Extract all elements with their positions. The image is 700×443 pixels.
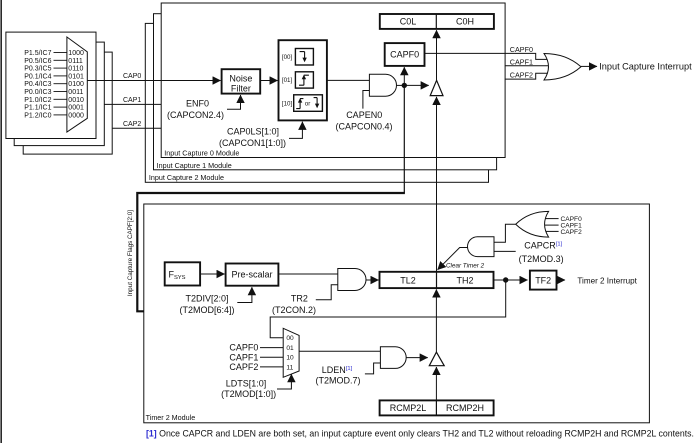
wire CAP1: [104, 103, 161, 105]
wire RCMP2L/RCMP2H up to reload buffer: [435, 367, 437, 400]
input capture module 0 box (front): [161, 3, 505, 158]
wire CAP0 from mux to noise filter: [87, 80, 220, 82]
svg-text:CAPEN0: CAPEN0: [346, 110, 382, 120]
svg-text:P0.4/IC3: P0.4/IC3: [24, 81, 51, 88]
svg-text:CAP0: CAP0: [123, 73, 141, 80]
svg-text:T2DIV[2:0]: T2DIV[2:0]: [185, 294, 228, 304]
edge selector box: [279, 40, 327, 120]
svg-text:P1.2/IC0: P1.2/IC0: [24, 112, 51, 119]
svg-text:P0.3/IC5: P0.3/IC5: [24, 66, 51, 73]
wire CAP0LS select into edge selector: [289, 122, 302, 139]
svg-text:Input Capture 0 Module: Input Capture 0 Module: [164, 148, 239, 157]
OR gate U4 (capture flags, mirrored): [516, 211, 549, 237]
svg-text:Noise: Noise: [229, 74, 252, 84]
pre-scalar box: [226, 264, 279, 286]
C0L / C0H capture register box: [380, 14, 494, 29]
wire CAPF0 to reload mux 01: [260, 347, 283, 349]
wire: AND output down to flags bracket: [403, 85, 405, 193]
svg-text:P0.1/IC4: P0.1/IC4: [24, 73, 51, 80]
svg-text:Timer 2 Interrupt: Timer 2 Interrupt: [577, 276, 637, 285]
svg-text:Filter: Filter: [231, 84, 251, 94]
edge option [01] rising-edge icon: [299, 75, 309, 85]
svg-text:10: 10: [286, 355, 294, 362]
wire CAPEN0 to AND U1: [363, 91, 370, 109]
svg-text:(T2MOD[6:4]): (T2MOD[6:4]): [179, 305, 234, 315]
wire CAPF2 to interrupt OR: [505, 73, 552, 79]
svg-text:(T2MOD.3): (T2MOD.3): [519, 254, 564, 264]
wire timer bus TL2/TH2 up to capture buffer: [436, 97, 438, 272]
wire TR2 to AND U2: [316, 285, 338, 300]
svg-text:[1] Once CAPCR and LDEN are bo: [1] Once CAPCR and LDEN are both set, an…: [146, 428, 694, 438]
wire node A to capture buffer trigger: [404, 84, 428, 86]
wire node B feedback to reload mux 00: [270, 280, 506, 338]
svg-text:Input Capture Interrupt: Input Capture Interrupt: [599, 62, 692, 72]
wire AND U1 output to node A: [397, 84, 405, 86]
svg-text:11: 11: [286, 364, 293, 371]
net labels at reload mux: [229, 343, 258, 372]
wire TF2 to timer 2 interrupt: [557, 279, 566, 281]
svg-text:CAP0LS[1:0]: CAP0LS[1:0]: [227, 127, 279, 137]
wire CAPF0 into OR U4: [543, 218, 559, 220]
TL2 / TH2 register box: [380, 272, 494, 288]
pin dashes: [54, 53, 67, 115]
CAPF0 flag box: [385, 43, 425, 66]
wire LDEN to AND U3: [365, 363, 381, 374]
wire clear timer 2: [438, 248, 468, 270]
edge option [10] rising-or-falling icon: [296, 99, 303, 109]
svg-text:P0.5/IC6: P0.5/IC6: [24, 58, 51, 65]
wire AND U2 to TL2: [366, 279, 379, 281]
svg-text:C0L: C0L: [400, 17, 417, 27]
wire CAPF2 into OR U4: [543, 230, 559, 232]
svg-text:01: 01: [286, 345, 294, 352]
svg-text:or: or: [305, 100, 311, 107]
svg-text:CAPF2: CAPF2: [510, 71, 533, 80]
page left border: [0, 0, 2, 443]
pin labels: port inputs: [24, 50, 51, 119]
svg-text:CAPF0: CAPF0: [229, 343, 258, 353]
node A junction dot: [402, 83, 407, 88]
AND gate U2 (timer run): [338, 269, 366, 291]
FSYS box: [165, 262, 200, 285]
svg-text:Pre-scalar: Pre-scalar: [231, 269, 272, 279]
svg-text:TF2: TF2: [535, 276, 551, 286]
OR gate: input capture interrupt: [544, 54, 581, 81]
wire TH2 to TF2: [494, 279, 528, 281]
mux: input port selector: [67, 37, 87, 132]
svg-text:RCMP2H: RCMP2H: [446, 403, 484, 413]
svg-text:CAPF2: CAPF2: [561, 229, 583, 236]
wire OR output to input capture interrupt: [581, 65, 597, 67]
svg-text:(T2CON.2): (T2CON.2): [272, 305, 316, 315]
svg-text:0011: 0011: [68, 89, 83, 96]
wire FSYS to pre-scalar: [200, 273, 225, 275]
port-select stack box 3 (back): [23, 52, 112, 154]
svg-text:0000: 0000: [68, 112, 84, 119]
svg-text:1000: 1000: [68, 50, 84, 57]
svg-text:0001: 0001: [68, 105, 84, 112]
svg-text:CAPF0: CAPF0: [390, 50, 419, 60]
svg-text:Timer 2 Module: Timer 2 Module: [146, 413, 196, 422]
svg-text:P0.0/IC3: P0.0/IC3: [24, 89, 51, 96]
wire node A up to CAPF0 flag box: [403, 67, 405, 85]
wire reload buffer to TL2/TH2: [435, 289, 437, 352]
timer 2 module box: [144, 204, 650, 423]
svg-text:(CAPCON0.4): (CAPCON0.4): [335, 122, 392, 132]
svg-text:00: 00: [286, 335, 294, 342]
svg-text:(T2MOD.7): (T2MOD.7): [316, 375, 361, 385]
reload buffer (tri-state triangle): [429, 352, 444, 366]
wire CAPF0 to interrupt OR: [425, 53, 553, 59]
reload mux LDTS: [283, 328, 299, 377]
svg-text:[10]: [10]: [282, 101, 293, 108]
svg-text:P1.5/IC7: P1.5/IC7: [24, 50, 51, 57]
svg-text:C0H: C0H: [456, 17, 474, 27]
svg-text:[00]: [00]: [282, 54, 293, 61]
wire CAP2: [112, 127, 161, 129]
svg-text:P1.1/IC1: P1.1/IC1: [24, 105, 51, 112]
AND gate U1 (capture enable): [369, 74, 396, 96]
wire AND U3 to reload buffer trigger: [406, 357, 428, 359]
svg-text:0110: 0110: [68, 66, 83, 73]
svg-text:Input Capture 1 Module: Input Capture 1 Module: [157, 161, 232, 170]
wire CAPF1 into OR U4: [544, 224, 559, 226]
bus bracket: input capture flags CAPF[2:0] into timer 2 module: [137, 193, 405, 311]
svg-text:TH2: TH2: [456, 276, 473, 286]
svg-text:0111: 0111: [68, 58, 83, 65]
svg-text:0100: 0100: [68, 81, 84, 88]
svg-text:CAP2: CAP2: [123, 121, 141, 128]
wire reload mux to AND U3: [299, 350, 380, 352]
capture buffer (tri-state triangle): [430, 80, 443, 95]
svg-text:0101: 0101: [68, 73, 84, 80]
RCMP2L / RCMP2H reload register box: [380, 400, 494, 415]
wire ENF0 to noise filter enable: [227, 95, 241, 109]
svg-text:Clear Timer 2: Clear Timer 2: [446, 263, 485, 270]
svg-text:TL2: TL2: [400, 276, 416, 286]
wire OR U4 output to AND U5: [494, 224, 516, 242]
edge option [00] box: [295, 49, 313, 66]
svg-text:(CAPCON1[1:0]): (CAPCON1[1:0]): [219, 138, 286, 148]
svg-text:(CAPCON2.4): (CAPCON2.4): [167, 110, 224, 120]
wire capture buffer to C0L/C0H: [436, 30, 438, 80]
AND gate U3 (reload enable): [380, 347, 406, 369]
svg-text:LDTS[1:0]: LDTS[1:0]: [226, 379, 267, 389]
svg-text:P1.0/IC2: P1.0/IC2: [24, 97, 51, 104]
svg-text:ENF0: ENF0: [186, 99, 209, 109]
wire edge selector to AND U1: [327, 79, 370, 81]
svg-text:CAP1: CAP1: [123, 97, 141, 104]
wire T2DIV select into pre-scalar: [237, 287, 252, 302]
AND gate U5 (capture clear, mirrored): [468, 237, 494, 257]
svg-text:CAPF2: CAPF2: [229, 362, 258, 372]
port-select stack box 2: [14, 42, 104, 146]
edge option [00] falling-edge icon: [300, 52, 305, 59]
svg-text:TR2: TR2: [291, 294, 308, 304]
svg-text:Input Capture Flags CAPF[2:0]: Input Capture Flags CAPF[2:0]: [127, 210, 134, 296]
svg-text:CAPF0: CAPF0: [510, 45, 533, 54]
TF2 flag box: [530, 271, 557, 290]
noise filter box: [222, 69, 261, 93]
svg-text:RCMP2L: RCMP2L: [390, 403, 427, 413]
svg-text:0010: 0010: [68, 97, 84, 104]
wire CAPF1 to reload mux 10: [260, 356, 283, 358]
svg-text:CAPF1: CAPF1: [229, 352, 258, 362]
mux select codes: [68, 50, 84, 119]
svg-text:Input Capture 2 Module: Input Capture 2 Module: [149, 173, 224, 182]
wire CAPCR to AND U5: [494, 250, 516, 252]
svg-text:CAPF1: CAPF1: [510, 57, 533, 66]
wire CAPF1 to interrupt OR: [505, 65, 553, 67]
input capture module 2 box (back): [145, 23, 488, 182]
wire noise filter to edge selector: [260, 80, 277, 82]
edge option [10] box: [294, 95, 323, 112]
port-select stack box 1 (front): [6, 32, 96, 138]
edge option [01] box: [295, 72, 313, 88]
node B junction dot: [503, 277, 508, 282]
wire LDTS select into reload mux: [277, 374, 291, 389]
wire pre-scalar to AND U2: [278, 273, 337, 275]
svg-text:[01]: [01]: [282, 77, 293, 84]
wire CAPF2 to reload mux 11: [260, 366, 283, 368]
input capture module 1 box: [154, 14, 497, 170]
svg-text:(T2MOD[1:0]): (T2MOD[1:0]): [221, 389, 276, 399]
